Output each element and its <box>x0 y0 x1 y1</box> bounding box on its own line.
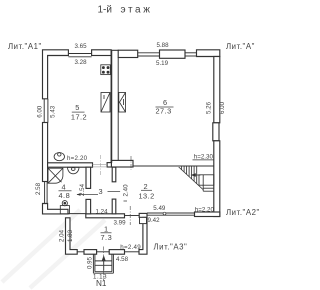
water heater on bottom wall <box>62 201 67 206</box>
divider wall room5/room4 <box>48 163 93 167</box>
room3|room2 wall upper piece <box>112 167 116 182</box>
room1 right wall with corner <box>139 217 147 254</box>
svg-text:3.65: 3.65 <box>75 43 88 50</box>
door line bottom wall left <box>68 213 86 215</box>
svg-text:h=2.49: h=2.49 <box>120 244 141 251</box>
shower tray with X <box>48 168 63 183</box>
svg-text:5.43: 5.43 <box>50 105 57 118</box>
window left wall lines <box>43 99 45 123</box>
top wall right thick block at junction <box>118 50 138 57</box>
top wall left block B <box>92 50 112 56</box>
bottom wall segment c <box>86 214 125 218</box>
door circle marker <box>163 212 166 215</box>
svg-text:6.00: 6.00 <box>219 101 226 114</box>
leader arrow 2.54 <box>77 194 98 196</box>
dash under 2.40 <box>124 200 128 202</box>
window 3.65 top-left lines <box>68 53 91 55</box>
treads <box>181 166 183 170</box>
room2 north boundary line <box>133 165 214 167</box>
room4 east wall upper <box>86 167 91 188</box>
svg-text:2.04: 2.04 <box>59 229 66 242</box>
window room4 west wall lines <box>44 182 46 204</box>
svg-text:1-й: 1-й <box>98 5 112 16</box>
stair arrow <box>192 174 200 176</box>
centerlines dash-dot <box>104 156 131 281</box>
opening line room5-room3 <box>93 164 108 166</box>
svg-text:h=2.20: h=2.20 <box>195 206 215 213</box>
room1 door thin line <box>77 251 84 253</box>
svg-text:h=2.20: h=2.20 <box>67 155 88 162</box>
svg-text:13.2: 13.2 <box>139 191 155 200</box>
stairs <box>179 166 214 191</box>
svg-text:h=2.30: h=2.30 <box>194 154 214 161</box>
svg-text:Лит."А2": Лит."А2" <box>226 208 260 217</box>
window band right of 5.88 <box>185 52 197 54</box>
kitchen wall right line <box>117 58 119 161</box>
left wall bottom corner block <box>43 204 69 214</box>
window top-right 5.88 <box>160 50 186 58</box>
porch up arrow <box>103 259 105 271</box>
svg-text:5: 5 <box>75 103 80 112</box>
left wall lower <box>43 123 48 182</box>
svg-text:3.28: 3.28 <box>75 59 88 66</box>
svg-text:1.83: 1.83 <box>67 229 74 242</box>
svg-text:1.24: 1.24 <box>96 209 109 216</box>
stair diagonal <box>179 167 203 190</box>
wash basin room4 <box>68 167 80 174</box>
divider branch right of kitchen wall <box>111 160 133 167</box>
svg-text:5.19: 5.19 <box>156 60 169 67</box>
right wall upper <box>214 57 220 123</box>
porch <box>93 254 113 273</box>
fixtures <box>48 65 126 214</box>
svg-text:Лит."А3": Лит."А3" <box>154 242 188 251</box>
svg-text:Лит."А": Лит."А" <box>226 42 255 51</box>
room1 left wall <box>66 218 78 254</box>
porch left double line <box>92 254 94 273</box>
toilet in room5 corner <box>54 153 64 161</box>
boiler left of kitchen wall <box>101 93 110 113</box>
room1 line right gap <box>125 251 140 253</box>
svg-text:0.95: 0.95 <box>86 256 93 269</box>
window band left of 5.88 <box>138 52 160 54</box>
room3|room2 wall lower piece <box>112 199 116 214</box>
room4 east wall lower piece <box>86 199 91 213</box>
svg-text:Лит."А1": Лит."А1" <box>8 42 42 51</box>
svg-text:2: 2 <box>144 182 149 191</box>
window right wall <box>213 123 219 141</box>
svg-text:этаж: этаж <box>121 5 153 16</box>
opening lines А2 <box>147 212 195 214</box>
porch step lines <box>95 260 112 262</box>
svg-text:6.00: 6.00 <box>36 105 43 118</box>
svg-text:7.3: 7.3 <box>101 233 113 242</box>
svg-text:17.2: 17.2 <box>71 112 87 121</box>
svg-text:2.58: 2.58 <box>35 182 42 195</box>
bottom wall segment e <box>139 213 147 217</box>
stair opening line <box>193 159 214 161</box>
stair landing <box>199 175 214 185</box>
door centerline dash <box>99 155 101 176</box>
svg-text:N1: N1 <box>96 279 107 288</box>
svg-text:3: 3 <box>99 187 104 196</box>
svg-text:6: 6 <box>163 98 168 107</box>
door line bottom wall mid <box>125 215 140 217</box>
top wall left block A <box>43 50 69 99</box>
room1 porch door line <box>97 251 110 253</box>
porch bottom double line <box>93 272 113 274</box>
svg-text:5.26: 5.26 <box>205 101 212 114</box>
svg-text:3.99: 3.99 <box>114 219 127 226</box>
top-right corner block <box>197 50 220 57</box>
svg-text:4.58: 4.58 <box>116 256 129 263</box>
right wall lower <box>214 141 220 217</box>
kitchen wall left line <box>110 50 112 163</box>
svg-text:4.8: 4.8 <box>59 191 71 200</box>
furnace right of kitchen wall <box>119 93 126 113</box>
bottom wall corner block g <box>195 212 220 217</box>
svg-text:2.40: 2.40 <box>123 184 130 197</box>
junction stub left <box>107 163 111 167</box>
top wall outer line across junction <box>111 49 119 51</box>
thin window/opening lines <box>44 50 214 252</box>
room1 bottom wall segment <box>84 250 97 255</box>
gas stove with burners <box>101 65 111 75</box>
lower treads <box>203 187 214 189</box>
svg-text:27.3: 27.3 <box>156 107 172 116</box>
svg-text:9.42: 9.42 <box>148 217 161 224</box>
room1 bottom wall segment 2 <box>109 250 124 255</box>
porch right double line <box>112 254 114 273</box>
watermark <box>2 210 105 288</box>
svg-text:5.88: 5.88 <box>157 42 170 49</box>
small fixture box on room1 right wall <box>140 217 147 223</box>
svg-text:5.49: 5.49 <box>153 205 166 212</box>
